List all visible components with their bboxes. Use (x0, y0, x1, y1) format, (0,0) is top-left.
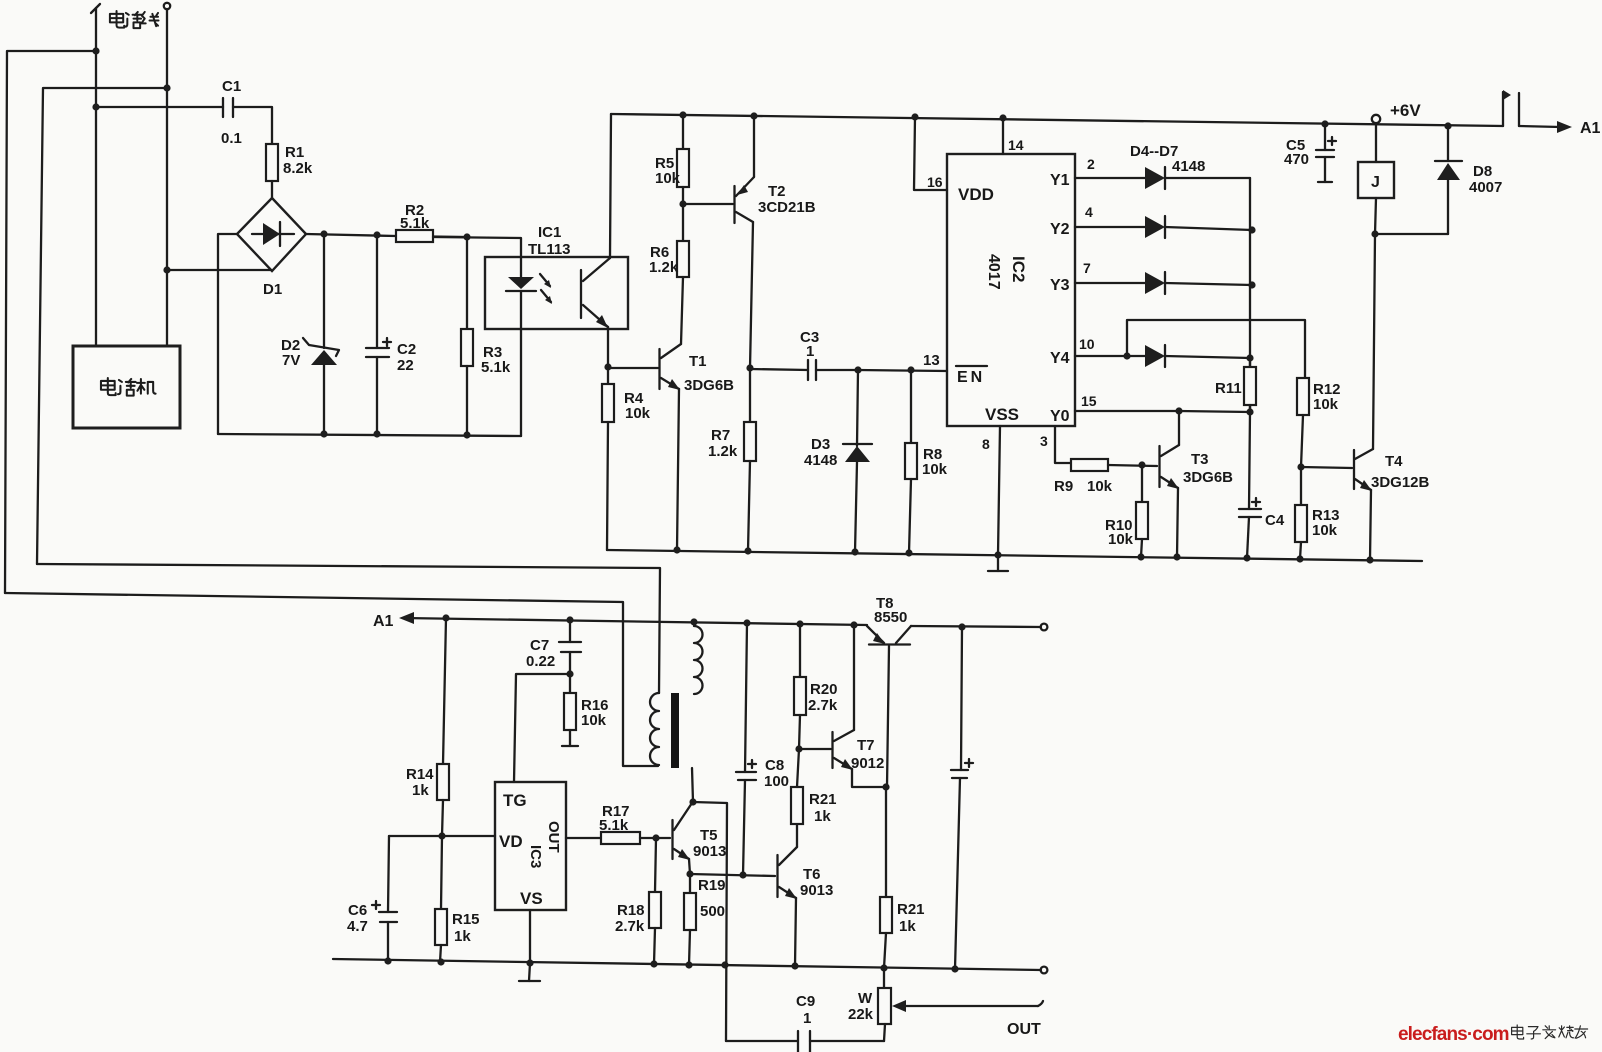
svg-text:+6V: +6V (1390, 101, 1421, 120)
svg-text:Y3: Y3 (1050, 277, 1070, 294)
svg-text:1k: 1k (412, 782, 429, 799)
svg-text:1k: 1k (899, 918, 916, 935)
svg-text:10k: 10k (1087, 478, 1113, 495)
diode D6 (1145, 272, 1256, 294)
wire: A1 supply line (lower section) (373, 612, 867, 630)
wire: diode output bus (1246, 178, 1253, 416)
resistor R3 (461, 237, 511, 435)
svg-text:2.7k: 2.7k (615, 918, 645, 935)
wire: A1 line right of T8 (911, 623, 1047, 630)
transistor T8 8550 (867, 595, 911, 787)
IC2 4017 box (947, 154, 1075, 426)
svg-text:1: 1 (803, 1010, 811, 1027)
capacitor C2 22 (366, 235, 416, 434)
svg-text:2.7k: 2.7k (808, 697, 838, 714)
wire: loop wire 1 from line A to lower section (5, 47, 100, 593)
resistor R15 (435, 836, 480, 962)
svg-text:22k: 22k (848, 1006, 874, 1023)
svg-text:D3: D3 (811, 436, 830, 453)
svg-text:8.2k: 8.2k (283, 160, 313, 177)
svg-text:D8: D8 (1473, 163, 1492, 180)
svg-text:5.1k: 5.1k (481, 359, 511, 376)
resistor R5 (655, 115, 689, 204)
transistor T5 9013 (673, 803, 727, 874)
svg-text:10k: 10k (1108, 531, 1134, 548)
resistor R14 (406, 618, 449, 836)
diode D7 (1123, 345, 1253, 367)
svg-text:9013: 9013 (693, 843, 726, 860)
wire: Y0 line to T3 collector (1175, 407, 1250, 445)
diode D3 4148 (804, 370, 872, 552)
IC3 VS pin and ground (519, 910, 540, 981)
svg-text:4148: 4148 (1172, 158, 1205, 175)
svg-text:R18: R18 (617, 902, 645, 919)
svg-text:3: 3 (1040, 433, 1048, 449)
phone line L2 (vertical wire B) (164, 3, 170, 346)
potentiometer W 22k (848, 968, 1043, 1041)
svg-text:500: 500 (700, 903, 725, 920)
svg-text:R20: R20 (810, 681, 838, 698)
wire: T5 emitter to T6 base (690, 871, 775, 878)
IC2 pin 14 (1003, 118, 1024, 154)
svg-text:R19: R19 (698, 877, 726, 894)
svg-text:T3: T3 (1191, 451, 1209, 468)
svg-text:100: 100 (764, 773, 789, 790)
svg-text:R11: R11 (1215, 380, 1242, 397)
wire: bridge minus output to lower rail (218, 234, 237, 434)
svg-text:D1: D1 (263, 281, 282, 298)
resistor R7 (708, 364, 756, 551)
svg-text:4007: 4007 (1469, 179, 1502, 196)
wire: node to EN pin13 (854, 352, 947, 374)
svg-text:4.7: 4.7 (347, 918, 368, 935)
wire: R2 to IC1 LED (433, 233, 521, 257)
svg-text:J: J (1371, 174, 1380, 191)
transistor T6 9013 (778, 824, 834, 966)
svg-text:15: 15 (1081, 393, 1097, 409)
IC2 pin 16 (914, 117, 947, 190)
svg-text:IC2: IC2 (1009, 256, 1028, 282)
resistor R13 (1295, 463, 1340, 559)
transistor T3 3DG6B (1160, 445, 1234, 557)
svg-text:OUT: OUT (545, 821, 562, 853)
svg-text:R21: R21 (809, 791, 837, 808)
svg-text:T4: T4 (1385, 453, 1403, 470)
OUT label (1007, 1021, 1041, 1038)
svg-text:10k: 10k (1313, 396, 1339, 413)
svg-text:C1: C1 (222, 78, 241, 95)
svg-text:C6: C6 (348, 902, 367, 919)
svg-text:9012: 9012 (851, 755, 884, 772)
svg-text:0.22: 0.22 (526, 653, 555, 670)
svg-text:4: 4 (1085, 204, 1093, 220)
svg-text:1k: 1k (814, 808, 831, 825)
svg-text:C7: C7 (530, 637, 549, 654)
svg-text:10k: 10k (625, 405, 651, 422)
svg-text:T2: T2 (768, 183, 786, 200)
svg-text:2: 2 (1087, 156, 1095, 172)
optocoupler IC1 TL113 box (485, 224, 628, 329)
svg-text:10k: 10k (581, 712, 607, 729)
resistor R21 (driver) (791, 749, 837, 825)
svg-text:10k: 10k (1312, 522, 1338, 539)
wire: loop wire 1 lower run to transformer primary bottom (5, 593, 658, 766)
svg-text:elecfans·com: elecfans·com (1398, 1024, 1509, 1045)
svg-text:C4: C4 (1265, 512, 1285, 529)
svg-text:10k: 10k (655, 170, 681, 187)
svg-text:T5: T5 (700, 827, 718, 844)
diode D5 (1145, 216, 1256, 238)
svg-text:TL113: TL113 (528, 241, 571, 258)
svg-text:C8: C8 (765, 757, 784, 774)
capacitor C4 (1239, 412, 1285, 558)
svg-text:1k: 1k (454, 928, 471, 945)
IC1 phototransistor (581, 114, 611, 367)
wire: +V top rail (611, 111, 1503, 129)
svg-text:EN: EN (957, 369, 985, 386)
svg-text:R7: R7 (711, 427, 730, 444)
svg-text:7: 7 (1083, 260, 1091, 276)
svg-text:8: 8 (982, 436, 990, 452)
svg-text:3DG6B: 3DG6B (1183, 469, 1233, 486)
svg-text:VDD: VDD (958, 185, 994, 204)
wire: ground rail (lower section) (333, 957, 1047, 973)
svg-text:IC1: IC1 (538, 224, 561, 241)
svg-text:VSS: VSS (985, 405, 1019, 424)
svg-text:9013: 9013 (800, 882, 833, 899)
svg-text:5.1k: 5.1k (599, 817, 629, 834)
IC2 outputs Y1-Y0 pin wires (1075, 156, 1179, 411)
capacitor C9 (726, 993, 884, 1052)
IC1 LED (506, 257, 536, 436)
svg-text:Y4: Y4 (1050, 350, 1070, 367)
capacitor C5 470 (1284, 124, 1336, 182)
svg-text:1: 1 (806, 343, 814, 360)
wire: loop wire 2 from line B to lower section (37, 84, 171, 564)
elecfans logo (1398, 1024, 1588, 1045)
transistor T7 9012 (795, 625, 886, 787)
svg-text:Y0: Y0 (1050, 408, 1070, 425)
IC2 pin 8 and ground (982, 426, 1008, 571)
svg-text:14: 14 (1008, 137, 1024, 153)
svg-text:VS: VS (520, 889, 543, 908)
wire: C7 to TG pin (514, 670, 574, 782)
svg-text:Y1: Y1 (1050, 172, 1070, 189)
svg-text:470: 470 (1284, 151, 1309, 168)
svg-text:TG: TG (503, 791, 527, 810)
zener diode D2 7V (281, 234, 339, 434)
svg-text:3DG12B: 3DG12B (1371, 474, 1430, 491)
resistor R20 (794, 624, 838, 749)
resistor R19 (684, 870, 726, 965)
svg-text:0.1: 0.1 (221, 130, 242, 147)
svg-text:5.1k: 5.1k (400, 215, 430, 232)
wire: loop wire 2 lower run to transformer primary top (37, 564, 660, 693)
svg-text:A1: A1 (373, 613, 394, 630)
svg-text:OUT: OUT (1007, 1021, 1041, 1038)
svg-text:A1: A1 (1580, 120, 1601, 137)
svg-text:13: 13 (923, 352, 940, 369)
diode D8 4007 (1375, 126, 1502, 234)
transformer secondary winding (694, 626, 703, 694)
relay contact and A1 arrow (1503, 90, 1601, 137)
svg-text:R21: R21 (897, 901, 925, 918)
capacitor C1 (221, 78, 272, 147)
resistor R11 (1215, 358, 1256, 412)
label 电话线 (110, 11, 159, 28)
wire: lower rail of input section (218, 430, 521, 438)
relay coil J (1358, 101, 1421, 238)
bridge rectifier D1 (237, 198, 306, 298)
svg-text:1.2k: 1.2k (649, 259, 679, 276)
IC2 pin 3 (1040, 426, 1071, 463)
svg-text:4017: 4017 (985, 254, 1002, 290)
resistor R21 (T8 base) (880, 783, 925, 968)
resistor R17 (566, 803, 670, 844)
transformer primary winding (650, 693, 659, 765)
svg-text:10k: 10k (922, 461, 948, 478)
resistor R2 (396, 202, 467, 242)
svg-text:VD: VD (499, 832, 523, 851)
transistor T2 3CD21B (683, 116, 816, 368)
svg-text:10: 10 (1079, 336, 1095, 352)
resistor R1 (266, 144, 313, 198)
transformer core (671, 693, 679, 768)
svg-text:3CD21B: 3CD21B (758, 199, 816, 216)
resistor R12 (1297, 378, 1341, 467)
svg-text:R14: R14 (406, 766, 434, 783)
svg-text:22: 22 (397, 357, 414, 374)
svg-text:W: W (858, 990, 873, 1007)
transistor T1 3DG6B (608, 344, 734, 550)
svg-text:8550: 8550 (874, 609, 907, 626)
svg-text:R1: R1 (285, 144, 304, 161)
resistor R18 (615, 834, 661, 964)
box 电话机 (telephone) (73, 346, 180, 428)
svg-text:16: 16 (927, 174, 943, 190)
resistor R6 (649, 200, 689, 344)
transistor T4 3DG12B (1301, 234, 1430, 560)
svg-text:R15: R15 (452, 911, 480, 928)
svg-text:1.2k: 1.2k (708, 443, 738, 460)
IC3 box (495, 782, 566, 910)
capacitor (supply filter) (951, 627, 973, 969)
resistor R10 (1105, 461, 1148, 557)
svg-text:4148: 4148 (804, 452, 837, 469)
phone line L1 (vertical wire A) (91, 4, 100, 346)
svg-text:R9: R9 (1054, 478, 1073, 495)
resistor R16 (562, 674, 609, 746)
IC1 light arrows (540, 274, 552, 304)
svg-text:C9: C9 (796, 993, 815, 1010)
capacitor C6 4.7 (347, 836, 397, 961)
wire: VD pin line (389, 832, 495, 839)
svg-text:Y2: Y2 (1050, 221, 1070, 238)
wire: line B to bridge AC input (163, 266, 271, 273)
wire: bridge plus output line (306, 230, 396, 238)
resistor R9 (1054, 459, 1157, 495)
svg-text:T7: T7 (857, 737, 875, 754)
capacitor C7 0.22 (526, 620, 581, 674)
diode D4 (1130, 143, 1250, 189)
capacitor C8 100 (736, 623, 789, 875)
wire: T5 collector node to C9 line (689, 768, 727, 1041)
resistor R8 (905, 370, 948, 553)
resistor R4 (602, 363, 651, 550)
capacitor C3 (750, 329, 858, 380)
wire: Y4 loop to R12 (1127, 320, 1305, 378)
wire: ground rail of oscillator section (607, 546, 1422, 563)
wire: line A to C1 (92, 103, 223, 110)
svg-text:T6: T6 (803, 866, 821, 883)
svg-text:T1: T1 (689, 353, 707, 370)
svg-text:3DG6B: 3DG6B (684, 377, 734, 394)
svg-text:C2: C2 (397, 341, 416, 358)
svg-text:7V: 7V (282, 352, 300, 369)
svg-text:IC3: IC3 (527, 845, 544, 868)
